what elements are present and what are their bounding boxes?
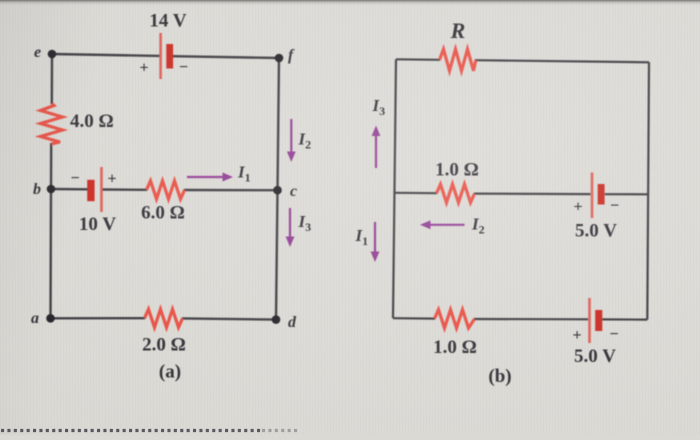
wire battery V3 to right edge (middle branch, circuit b) [605, 193, 648, 195]
battery V3 5.0 V (circuit b, middle branch) [591, 173, 605, 219]
wire node b to battery V2 (middle branch, circuit a) [51, 188, 88, 191]
node d (junction dot) [272, 315, 281, 324]
wire resistor 2.0 ohm to node d (bottom branch, circuit a) [182, 318, 276, 319]
resistor R (circuit b, top branch) [440, 49, 476, 71]
resistor 1.0 ohm (circuit b, bottom branch) [435, 310, 475, 328]
battery V2 10 V (circuit a, middle branch) [87, 167, 103, 212]
current arrow I3 (circuit b, left outside, pointing up) [372, 126, 381, 169]
node c (junction dot) [273, 186, 282, 195]
wire node c to node d (right lower, circuit a) [276, 190, 278, 319]
wire left edge to resistor 1.0 ohm (middle branch, circuit b) [395, 192, 438, 195]
battery V1 14 V (circuit a, top branch) [159, 33, 173, 79]
wire battery V2 to resistor 6.0 ohm (middle branch, circuit a) [103, 188, 148, 191]
wire battery V4 to bottom-right corner (circuit b) [602, 318, 647, 320]
wire bottom-left corner to resistor 1.0 ohm (bottom branch, circuit b) [393, 317, 435, 320]
wire node a to resistor 2.0 ohm (bottom branch, circuit a) [51, 317, 146, 319]
current arrow I2 (circuit b, middle branch, pointing left) [420, 220, 465, 229]
wire top-left corner to resistor R (circuit b) [396, 58, 440, 61]
wire node f to node c (right upper, circuit a) [278, 58, 280, 190]
node f (junction dot) [275, 54, 284, 63]
wire node b to node a (left lower, circuit a) [49, 189, 52, 318]
wire battery V1 to node f (top right segment, circuit a) [173, 56, 279, 58]
wire node e to resistor 4.0 ohm (left upper, circuit a) [51, 54, 54, 104]
battery V4 5.0 V (circuit b, bottom branch) [588, 298, 602, 343]
wire right edge (circuit b) [647, 62, 649, 319]
resistor 1.0 ohm (circuit b, middle branch) [437, 184, 475, 202]
resistor 4.0 ohm (circuit a, left branch) [41, 104, 63, 145]
current arrow I1 (circuit b, left outside, pointing down) [371, 222, 380, 262]
wire resistor 1.0 ohm to battery V3 (middle branch, circuit b) [474, 193, 591, 196]
resistor 2.0 ohm (circuit a, bottom branch) [145, 309, 183, 327]
wire resistor 6.0 ohm to node c (middle branch, circuit a) [184, 189, 278, 192]
node e (junction dot) [48, 50, 57, 59]
current arrow I3 (circuit a, right lower branch, pointing down) [286, 208, 295, 247]
wire e to battery V1 (top left segment, circuit a) [52, 54, 160, 56]
current arrow I2 (circuit a, right upper branch, pointing down) [287, 119, 296, 162]
resistor 6.0 ohm (circuit a, middle branch) [147, 181, 185, 199]
node b (junction dot) [47, 185, 56, 194]
wire resistor 1.0 ohm to battery V4 (bottom branch, circuit b) [474, 318, 588, 320]
current arrow I1 (circuit a, middle branch, pointing right) [187, 173, 233, 182]
wire resistor R to top-right corner (circuit b) [475, 60, 649, 62]
wire resistor 4.0 ohm to node b (left middle, circuit a) [50, 143, 53, 189]
wire left edge (circuit b) [393, 59, 396, 318]
node a (junction dot) [46, 314, 55, 323]
